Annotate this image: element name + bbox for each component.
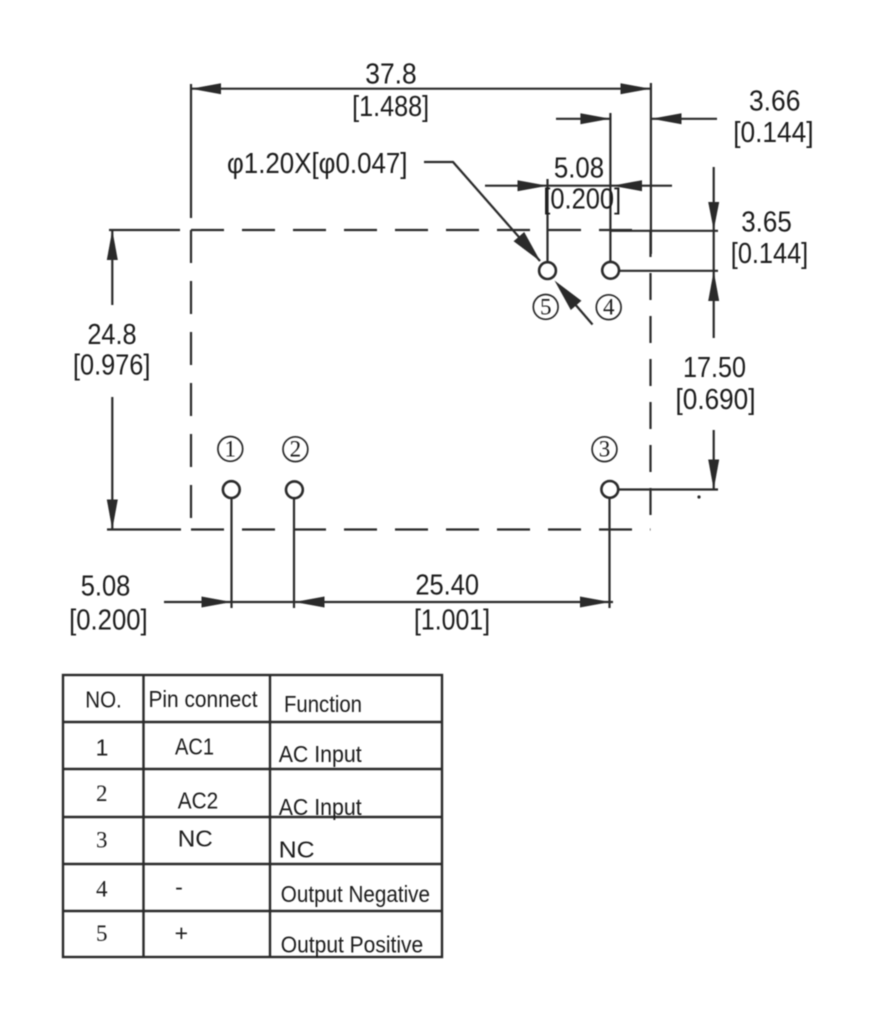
svg-text:Function: Function: [284, 691, 362, 717]
svg-text:-: -: [175, 874, 183, 900]
table row1 function AC Input: [279, 741, 363, 767]
table row1 no: [96, 735, 109, 761]
dimension 17.50 pin3 row extension line: [619, 488, 718, 490]
arrowhead 3.66 at pin4 line pointing right: [580, 113, 610, 124]
stray ink dot: [697, 495, 700, 498]
dimension 3.66 line right segment: [651, 118, 717, 120]
arrowhead 17.50 down at pin3 row: [708, 460, 719, 490]
arrowhead 3.66 at right edge pointing left: [652, 113, 682, 124]
table row2 function AC Input: [279, 794, 363, 820]
svg-text:3: 3: [96, 828, 108, 853]
svg-text:NO.: NO.: [85, 687, 122, 713]
hole diameter label phi 1.20X[phi 0.047]: [227, 148, 408, 180]
svg-text:1: 1: [96, 735, 109, 761]
pin 3 extension line down: [608, 498, 610, 609]
pin 2 pad circle: [286, 481, 303, 498]
dimension text [0.200] bottom: [69, 605, 148, 637]
pin 2 number circle: [283, 437, 308, 462]
dimension 24.8 top extension line: [109, 229, 180, 231]
svg-text:AC Input: AC Input: [279, 741, 363, 767]
svg-text:4: 4: [603, 295, 615, 320]
arrowhead bottom 5.08 left-pointing at pin2: [295, 597, 325, 608]
svg-text:AC2: AC2: [178, 788, 219, 814]
pin 4 number circle: [596, 295, 621, 320]
bottom dimension line 5.08 / 25.40: [164, 601, 613, 603]
arrowhead 37.8 left: [191, 83, 221, 94]
dimension text 37.8: [365, 59, 416, 91]
dimension text 3.65: [741, 207, 792, 239]
arrowhead bottom 25.40 right-pointing at pin3: [580, 597, 610, 608]
dimension 3.65 / 17.50 pin4 row extension line: [619, 270, 718, 272]
svg-text:3.66: 3.66: [749, 86, 800, 118]
dimension 24.8 bottom extension line: [107, 528, 181, 530]
pin 2 extension line down: [293, 498, 295, 609]
svg-text:Output Negative: Output Negative: [281, 881, 430, 907]
svg-text:[0.690]: [0.690]: [676, 384, 756, 416]
arrowhead 37.8 right: [621, 83, 651, 94]
table row4 function Output Negative: [281, 881, 430, 907]
svg-text:Pin connect: Pin connect: [149, 686, 259, 712]
leader tail line below pin 5: [574, 303, 593, 325]
svg-text:1: 1: [225, 436, 237, 461]
svg-text:25.40: 25.40: [415, 570, 479, 602]
package outline dashed right edge: [649, 230, 651, 530]
table header NO.: [85, 687, 122, 713]
svg-text:AC1: AC1: [175, 734, 214, 760]
table row2 pin AC2: [178, 788, 219, 814]
dimension text 5.08 top: [554, 153, 604, 185]
svg-text:AC Input: AC Input: [279, 794, 363, 820]
pin 4 pad circle: [602, 262, 619, 279]
dimension 5.08 top: pin5 extension line: [546, 179, 548, 261]
dimension text [0.976]: [73, 350, 150, 382]
svg-text:φ1.20X[φ0.047]: φ1.20X[φ0.047]: [227, 148, 408, 180]
dimension 24.8 vertical line upper part: [111, 230, 113, 305]
arrowhead 5.08 top at pin4 pointing left: [612, 180, 642, 191]
pin 3 pad circle: [601, 481, 618, 498]
dimension 24.8 vertical line lower part: [111, 397, 113, 530]
table row line 4: [63, 863, 442, 865]
dimension text 17.50: [683, 352, 746, 384]
dimension 37.8 extension line left: [190, 84, 192, 218]
svg-text:NC: NC: [279, 837, 315, 863]
svg-text:[0.200]: [0.200]: [69, 605, 148, 637]
package outline dashed bottom edge: [191, 528, 651, 530]
dimension 5.08 top line: [485, 185, 672, 187]
svg-text:5: 5: [540, 294, 552, 319]
svg-text:[0.144]: [0.144]: [733, 117, 813, 149]
pin 1 number text: [225, 436, 237, 461]
dimension 3.66 line left segment: [556, 118, 610, 120]
leader line from phi text: [424, 162, 540, 261]
svg-text:5.08: 5.08: [81, 571, 131, 603]
table row line 1: [63, 721, 442, 723]
table row3 function NC: [279, 837, 315, 863]
svg-text:5.08: 5.08: [554, 153, 604, 185]
svg-text:NC: NC: [178, 826, 213, 852]
table row4 pin minus: [175, 874, 183, 900]
dimension 3.65 / 17.50 vertical line upper part: [713, 167, 715, 338]
table row5 pin plus: [175, 920, 188, 946]
pin 4 number text: [603, 295, 615, 320]
svg-text:17.50: 17.50: [683, 352, 746, 384]
dimension text 3.66: [749, 86, 800, 118]
pin 3 number circle: [592, 437, 617, 462]
svg-text:[0.144]: [0.144]: [731, 238, 808, 270]
pin 5 pad circle: [539, 262, 556, 279]
table row line 3: [63, 816, 442, 818]
svg-text:[0.976]: [0.976]: [73, 350, 150, 382]
dimension text [1.001]: [414, 605, 490, 637]
dimension text 25.40: [415, 570, 479, 602]
arrowhead 24.8 up: [107, 230, 118, 260]
table column line 2: [269, 675, 271, 957]
dimension text [0.144] right: [731, 238, 808, 270]
svg-text:5: 5: [96, 921, 108, 946]
svg-text:2: 2: [96, 781, 108, 806]
dimension text 24.8: [87, 319, 136, 351]
svg-text:[1.488]: [1.488]: [352, 91, 429, 123]
pin 5 number circle: [533, 295, 558, 320]
dimension text [0.690]: [676, 384, 756, 416]
table row line 5: [63, 910, 442, 912]
dimension 5.08 top: pin4 extension line: [609, 113, 611, 261]
dimension 3.65 extension line at package top edge: [610, 230, 718, 232]
pin 1 extension line down: [230, 498, 232, 609]
table row3 pin NC: [178, 826, 213, 852]
svg-text:2: 2: [290, 437, 302, 462]
dimension 37.8 extension line right: [650, 83, 652, 254]
arrowhead 5.08 top at pin5 pointing right: [518, 180, 548, 191]
dimension text [0.144] top: [733, 117, 813, 149]
svg-text:[1.001]: [1.001]: [414, 605, 490, 637]
svg-text:3.65: 3.65: [741, 207, 792, 239]
arrowhead 3.65/17.50 up at pin4 row: [708, 271, 719, 301]
dimension text 5.08 bottom: [81, 571, 131, 603]
table row3 no: [96, 828, 108, 853]
svg-text:24.8: 24.8: [87, 319, 136, 351]
svg-text:+: +: [175, 920, 188, 946]
svg-text:4: 4: [96, 877, 108, 902]
table row5 no: [96, 921, 108, 946]
dimension 17.50 vertical line lower part: [713, 430, 715, 490]
table row line 2: [63, 768, 442, 770]
table row2 no: [96, 781, 108, 806]
pin 5 number text: [540, 294, 552, 319]
package outline dashed left edge: [190, 230, 192, 530]
svg-text:[0.200]: [0.200]: [543, 184, 621, 216]
arrowhead bottom 5.08 right-pointing at pin1: [202, 597, 232, 608]
leader arrowhead upper pointing down-right at pin5: [514, 232, 541, 262]
table header Pin connect: [149, 686, 259, 712]
arrowhead 3.65 down at top edge: [708, 202, 719, 230]
pin 1 number circle: [218, 437, 243, 462]
svg-text:37.8: 37.8: [365, 59, 416, 91]
table column line 1: [142, 675, 144, 957]
dimension 37.8 line: [191, 88, 651, 90]
table row4 no: [96, 877, 108, 902]
arrowhead 24.8 down: [107, 500, 118, 530]
svg-text:Output Positive: Output Positive: [281, 931, 423, 957]
table outer border: [63, 675, 442, 957]
dimension text [0.200] top: [543, 184, 621, 216]
svg-text:3: 3: [599, 437, 611, 462]
leader arrowhead lower pointing up-left at pin5: [555, 281, 582, 311]
pin 3 number text: [599, 437, 611, 462]
pin 1 pad circle: [223, 481, 240, 498]
table header Function: [284, 691, 362, 717]
table row5 function Output Positive: [281, 931, 423, 957]
dimension text [1.488]: [352, 91, 429, 123]
table row1 pin AC1: [175, 734, 214, 760]
package outline dashed top edge: [191, 229, 651, 231]
pin 2 number text: [290, 437, 302, 462]
